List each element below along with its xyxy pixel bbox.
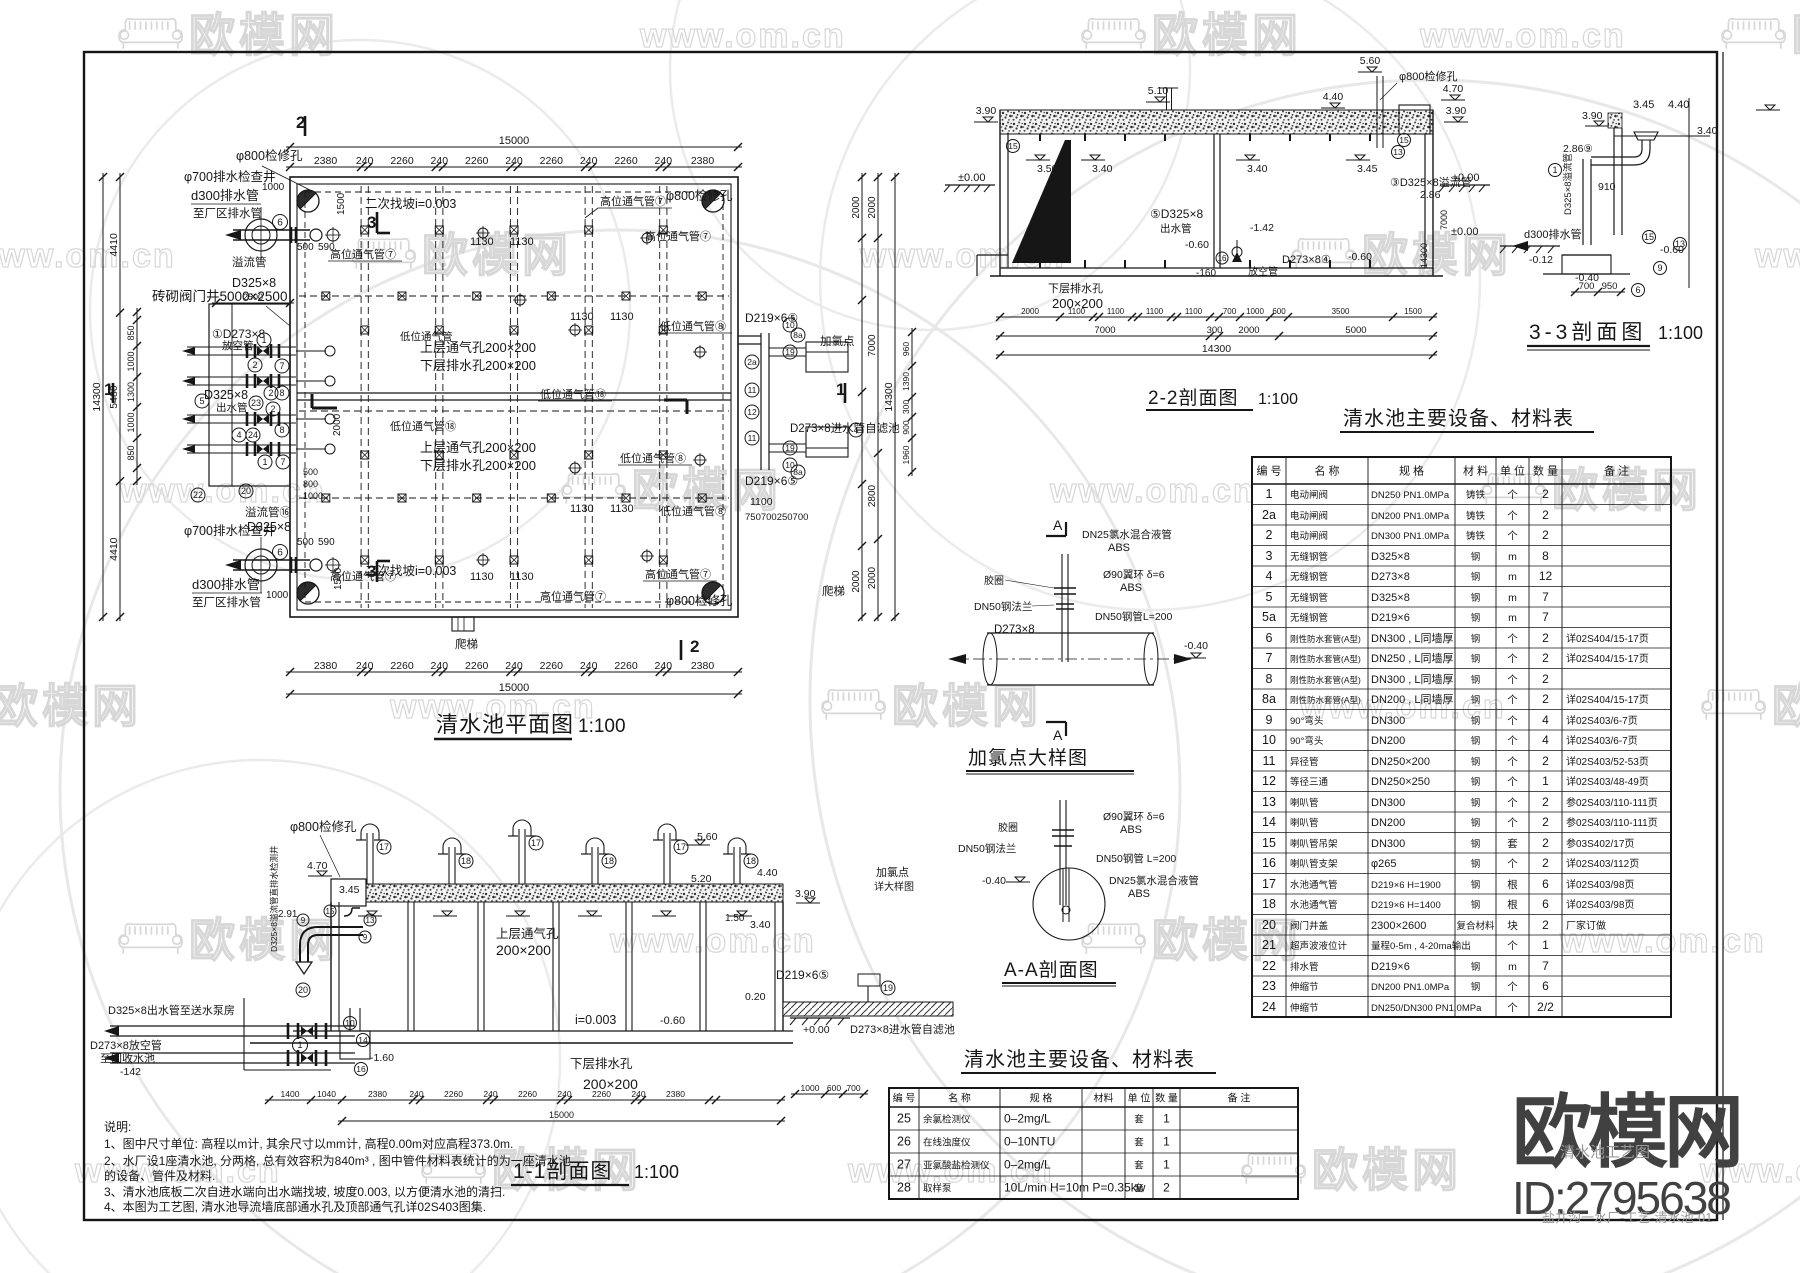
svg-text:2380: 2380: [314, 660, 338, 672]
svg-text:Ø90翼环 δ=6: Ø90翼环 δ=6: [1103, 569, 1165, 581]
svg-text:个: 个: [1507, 633, 1518, 645]
svg-text:750700250700: 750700250700: [745, 512, 808, 523]
svg-text:2: 2: [268, 388, 273, 398]
svg-text:2000: 2000: [867, 566, 878, 589]
svg-text:钢: 钢: [1471, 776, 1481, 788]
svg-text:2000: 2000: [1238, 325, 1259, 336]
svg-text:19: 19: [785, 443, 795, 453]
svg-text:出水管: 出水管: [216, 401, 248, 414]
svg-text:D219×6: D219×6: [1371, 612, 1410, 624]
svg-text:960: 960: [901, 342, 911, 356]
svg-text:胶圈: 胶圈: [984, 574, 1004, 587]
svg-text:14: 14: [358, 1035, 368, 1045]
svg-text:1100: 1100: [1107, 307, 1125, 316]
svg-text:2260: 2260: [614, 155, 638, 167]
svg-text:2260: 2260: [390, 155, 414, 167]
svg-text:水池通气管: 水池通气管: [1290, 899, 1338, 911]
svg-text:22: 22: [193, 490, 203, 500]
svg-text:2: 2: [1542, 836, 1549, 850]
svg-text:下层排水孔200×200: 下层排水孔200×200: [420, 458, 536, 473]
svg-text:铸铁: 铸铁: [1466, 510, 1486, 522]
svg-text:600: 600: [827, 1083, 841, 1093]
svg-text:2000: 2000: [851, 196, 862, 219]
svg-text:2: 2: [1542, 651, 1549, 665]
svg-text:详02S404/15-17页: 详02S404/15-17页: [1566, 632, 1649, 645]
svg-text:6: 6: [1542, 897, 1549, 911]
svg-text:详02S403/112页: 详02S403/112页: [1566, 857, 1639, 870]
svg-text:240: 240: [655, 660, 673, 672]
svg-text:D325×8: D325×8: [204, 388, 248, 402]
svg-text:8: 8: [1542, 549, 1549, 563]
svg-text:欧模网: 欧模网: [422, 229, 572, 281]
svg-text:0–2mg/L: 0–2mg/L: [1004, 1112, 1051, 1126]
svg-text:清水池平面图: 清水池平面图: [436, 712, 574, 737]
svg-text:喇叭管: 喇叭管: [1290, 817, 1319, 829]
svg-text:亚氯酸盐检测仪: 亚氯酸盐检测仪: [923, 1160, 990, 1172]
svg-text:钢: 钢: [1471, 858, 1481, 870]
svg-text:φ265: φ265: [1371, 858, 1397, 870]
svg-text:3: 3: [367, 213, 376, 232]
svg-text:①D273×8: ①D273×8: [212, 327, 265, 341]
svg-text:水池通气管: 水池通气管: [1290, 879, 1338, 891]
svg-text:无缝钢管: 无缝钢管: [1290, 551, 1328, 563]
svg-text:4.70: 4.70: [1443, 83, 1464, 95]
svg-text:4.40: 4.40: [757, 867, 778, 879]
svg-text:7000: 7000: [1439, 210, 1449, 230]
svg-text:2a: 2a: [747, 357, 757, 367]
svg-text:4: 4: [1542, 713, 1549, 727]
svg-text:20: 20: [1262, 918, 1276, 932]
svg-text:240: 240: [580, 155, 598, 167]
svg-text:±0.00: ±0.00: [958, 172, 985, 184]
svg-text:钢: 钢: [1471, 653, 1481, 665]
svg-text:加氯点: 加氯点: [876, 865, 909, 879]
svg-text:详02S404/15-17页: 详02S404/15-17页: [1566, 652, 1649, 665]
svg-text:www.om.cn: www.om.cn: [1049, 472, 1256, 510]
svg-text:16: 16: [1262, 856, 1276, 870]
svg-text:等径三通: 等径三通: [1290, 776, 1329, 788]
svg-text:700: 700: [1223, 307, 1237, 316]
svg-text:5.20: 5.20: [691, 873, 712, 885]
svg-text:7: 7: [280, 457, 285, 467]
svg-text:5000: 5000: [1345, 325, 1366, 336]
svg-text:18: 18: [604, 856, 614, 866]
svg-text:11: 11: [748, 433, 757, 443]
svg-text:DN25氯水混合液管: DN25氯水混合液管: [1082, 528, 1172, 541]
svg-text:套: 套: [1134, 1114, 1144, 1126]
svg-text:个: 个: [1507, 797, 1518, 809]
svg-text:D325×8溢流管直排水检测井: D325×8溢流管直排水检测井: [269, 845, 279, 952]
svg-text:15: 15: [326, 907, 335, 916]
svg-text:-0.60: -0.60: [1040, 251, 1064, 263]
svg-text:DN50钢法兰: DN50钢法兰: [974, 600, 1032, 613]
svg-text:材料: 材料: [1094, 1092, 1114, 1105]
svg-text:240: 240: [409, 1089, 423, 1099]
svg-text:1400: 1400: [281, 1089, 300, 1099]
svg-text:钢: 钢: [1471, 838, 1481, 850]
svg-text:高位通气管⑦: 高位通气管⑦: [645, 229, 711, 243]
svg-text:3.45: 3.45: [1633, 99, 1654, 111]
svg-text:D325×8溢流管: D325×8溢流管: [1562, 153, 1574, 215]
svg-text:16: 16: [1218, 254, 1227, 263]
svg-text:d300排水管: d300排水管: [1524, 227, 1581, 241]
svg-text:D273×8放空管: D273×8放空管: [90, 1038, 162, 1052]
svg-text:17: 17: [531, 838, 541, 848]
svg-text:2: 2: [1542, 487, 1549, 501]
svg-text:D273×8进水管自滤池: D273×8进水管自滤池: [850, 1022, 955, 1036]
svg-text:910: 910: [1598, 181, 1616, 193]
svg-text:2380: 2380: [691, 660, 715, 672]
svg-text:2: 2: [1542, 672, 1549, 686]
svg-text:复合材料: 复合材料: [1456, 920, 1495, 932]
svg-text:14300: 14300: [1419, 243, 1429, 268]
svg-text:1:100: 1:100: [1658, 323, 1703, 343]
svg-text:上层通气孔: 上层通气孔: [496, 926, 559, 941]
svg-text:25: 25: [897, 1112, 911, 1126]
svg-text:D219×6: D219×6: [1371, 961, 1410, 973]
svg-text:超声波液位计: 超声波液位计: [1290, 940, 1348, 952]
svg-text:低位通气管: 低位通气管: [400, 330, 453, 343]
svg-text:电动闸阀: 电动闸阀: [1290, 489, 1328, 501]
svg-text:钢: 钢: [1471, 571, 1481, 583]
svg-text:1: 1: [1552, 165, 1557, 175]
svg-text:1500: 1500: [336, 192, 347, 215]
svg-text:DN300: DN300: [1371, 715, 1405, 727]
svg-text:说明:: 说明:: [104, 1119, 131, 1134]
svg-text:2380: 2380: [691, 155, 715, 167]
svg-text:11: 11: [1263, 754, 1276, 768]
svg-text:2: 2: [1542, 508, 1549, 522]
svg-text:240: 240: [431, 155, 449, 167]
svg-text:22: 22: [1262, 959, 1276, 973]
svg-text:15: 15: [1399, 135, 1409, 145]
svg-text:编 号: 编 号: [1256, 464, 1281, 478]
svg-text:240: 240: [431, 660, 449, 672]
svg-text:20: 20: [241, 486, 251, 496]
svg-text:详02S403/98页: 详02S403/98页: [1566, 878, 1634, 891]
svg-text:2260: 2260: [592, 1089, 611, 1099]
svg-text:高位通气管⑦: 高位通气管⑦: [645, 567, 711, 581]
svg-text:240: 240: [580, 660, 598, 672]
svg-text:2: 2: [690, 637, 699, 656]
svg-text:详02S403/6-7页: 详02S403/6-7页: [1566, 734, 1638, 747]
svg-text:无缝钢管: 无缝钢管: [1290, 592, 1328, 604]
svg-text:2380: 2380: [368, 1089, 387, 1099]
svg-text:2: 2: [1542, 631, 1549, 645]
svg-text:DN300: DN300: [1371, 838, 1405, 850]
svg-text:5a: 5a: [1262, 610, 1276, 624]
svg-text:DN250×250: DN250×250: [1371, 776, 1430, 788]
svg-text:D219×6 H=1400: D219×6 H=1400: [1371, 900, 1441, 911]
svg-text:名 称: 名 称: [948, 1092, 971, 1105]
svg-text:4: 4: [1542, 733, 1549, 747]
svg-text:1130: 1130: [610, 503, 634, 515]
svg-text:盐井沟一水厂-工艺-清水池-01: 盐井沟一水厂-工艺-清水池-01: [1542, 1210, 1712, 1225]
svg-text:3.90: 3.90: [1582, 110, 1603, 122]
svg-text:20: 20: [298, 985, 308, 995]
svg-text:个: 个: [1507, 489, 1518, 501]
svg-text:240: 240: [655, 155, 673, 167]
svg-text:m: m: [1508, 571, 1517, 583]
svg-text:个: 个: [1507, 510, 1518, 522]
svg-text:名 称: 名 称: [1314, 464, 1339, 478]
svg-text:2000: 2000: [851, 570, 862, 593]
svg-text:爬梯: 爬梯: [455, 638, 478, 651]
svg-text:1000: 1000: [1246, 307, 1264, 316]
svg-text:1130: 1130: [510, 571, 534, 583]
svg-text:厂家订做: 厂家订做: [1566, 919, 1606, 932]
svg-text:DN50钢法兰: DN50钢法兰: [958, 842, 1016, 855]
svg-text:3: 3: [367, 562, 376, 581]
svg-text:1: 1: [1163, 1112, 1170, 1126]
svg-text:www.om.cn: www.om.cn: [1754, 237, 1800, 275]
svg-text:φ800检修孔: φ800检修孔: [1399, 69, 1458, 83]
svg-text:至厂区排水管: 至厂区排水管: [193, 206, 262, 220]
svg-text:钢: 钢: [1471, 674, 1481, 686]
svg-text:套: 套: [1507, 837, 1518, 850]
svg-text:9: 9: [1266, 713, 1273, 727]
svg-text:规 格: 规 格: [1030, 1092, 1053, 1105]
svg-text:700: 700: [1579, 281, 1595, 292]
svg-text:1: 1: [262, 457, 267, 467]
svg-text:2: 2: [252, 360, 257, 370]
svg-text:刚性防水套管(A型): 刚性防水套管(A型): [1290, 695, 1361, 705]
svg-text:7: 7: [1266, 651, 1273, 665]
svg-text:⑤D325×8: ⑤D325×8: [1150, 207, 1203, 221]
svg-text:19: 19: [785, 347, 795, 357]
svg-text:φ800检修孔: φ800检修孔: [666, 593, 733, 608]
svg-text:单 位: 单 位: [1128, 1092, 1151, 1105]
svg-text:套: 套: [1134, 1160, 1144, 1172]
svg-text:2380: 2380: [314, 155, 338, 167]
svg-text:16: 16: [356, 1064, 366, 1074]
svg-text:3.45: 3.45: [339, 884, 360, 896]
svg-text:1.50: 1.50: [725, 913, 745, 924]
svg-text:根: 根: [1507, 898, 1518, 911]
svg-text:1: 1: [1266, 487, 1273, 501]
svg-text:3500: 3500: [1332, 307, 1350, 316]
svg-text:DN250 PN1.0MPa: DN250 PN1.0MPa: [1371, 490, 1450, 501]
svg-text:ABS: ABS: [1128, 888, 1150, 900]
svg-text:1300: 1300: [126, 382, 136, 402]
svg-text:个: 个: [1507, 756, 1518, 768]
svg-text:加氯点大样图: 加氯点大样图: [968, 747, 1088, 769]
svg-text:DN250/DN300 PN1.0MPa: DN250/DN300 PN1.0MPa: [1371, 1003, 1482, 1014]
svg-text:DN200 , L同墙厚: DN200 , L同墙厚: [1371, 692, 1454, 706]
svg-text:i=0.003: i=0.003: [575, 1013, 616, 1027]
svg-text:欧模网: 欧模网: [1792, 9, 1800, 61]
svg-text:19: 19: [883, 983, 893, 993]
svg-text:爬梯: 爬梯: [822, 585, 845, 598]
svg-text:3.45: 3.45: [1357, 163, 1378, 175]
svg-text:2380: 2380: [666, 1089, 685, 1099]
svg-text:欧模网: 欧模网: [0, 680, 142, 732]
svg-text:下层排水孔: 下层排水孔: [1048, 281, 1103, 295]
svg-text:14300: 14300: [1202, 343, 1231, 355]
svg-text:2260: 2260: [518, 1089, 537, 1099]
svg-text:13: 13: [1675, 239, 1685, 249]
svg-text:D219×6⑤: D219×6⑤: [745, 311, 798, 325]
svg-text:详02S404/15-17页: 详02S404/15-17页: [1566, 693, 1649, 706]
svg-text:500: 500: [297, 242, 314, 253]
svg-text:钢: 钢: [1471, 899, 1481, 911]
svg-text:2: 2: [1542, 918, 1549, 932]
svg-text:喇叭管: 喇叭管: [1290, 797, 1319, 809]
svg-text:www.om.cn: www.om.cn: [119, 472, 326, 510]
svg-text:2: 2: [1266, 528, 1273, 542]
svg-text:4、本图为工艺图, 清水池导流墙底部通水孔及顶部通气孔详02: 4、本图为工艺图, 清水池导流墙底部通水孔及顶部通气孔详02S403图集.: [104, 1199, 486, 1214]
svg-text:备 注: 备 注: [1604, 464, 1629, 478]
svg-text:Ø90翼环 δ=6: Ø90翼环 δ=6: [1103, 811, 1165, 823]
svg-text:阀门井盖: 阀门井盖: [1290, 920, 1329, 932]
svg-text:7: 7: [1542, 959, 1549, 973]
svg-text:DN300: DN300: [1371, 797, 1405, 809]
svg-text:上层通气孔200×200: 上层通气孔200×200: [420, 440, 536, 455]
svg-text:取样泵: 取样泵: [923, 1183, 952, 1195]
svg-text:1100: 1100: [1185, 307, 1203, 316]
svg-text:90°弯头: 90°弯头: [1290, 735, 1323, 747]
svg-text:28: 28: [897, 1181, 911, 1195]
svg-text:ABS: ABS: [1120, 582, 1142, 594]
svg-text:17: 17: [379, 842, 389, 852]
svg-text:个: 个: [1507, 694, 1518, 706]
svg-text:在线浊度仪: 在线浊度仪: [923, 1137, 971, 1149]
svg-text:240: 240: [557, 1089, 571, 1099]
svg-text:参02S403/110-111页: 参02S403/110-111页: [1566, 816, 1658, 829]
svg-text:17: 17: [1262, 877, 1276, 891]
svg-text:DN250×200: DN250×200: [1371, 756, 1430, 768]
svg-text:11: 11: [748, 385, 757, 395]
svg-text:D273×8: D273×8: [994, 624, 1035, 636]
svg-text:放空管: 放空管: [1248, 265, 1278, 278]
svg-text:低位通气管⑧: 低位通气管⑧: [660, 319, 726, 333]
svg-text:DN250 , L同墙厚: DN250 , L同墙厚: [1371, 651, 1454, 665]
svg-text:500: 500: [303, 467, 318, 477]
svg-text:m: m: [1508, 961, 1517, 973]
svg-text:单 位: 单 位: [1500, 464, 1525, 478]
svg-text:240: 240: [505, 155, 523, 167]
svg-text:590: 590: [318, 537, 335, 548]
svg-text:d300排水管: d300排水管: [192, 577, 260, 592]
svg-text:2.91: 2.91: [278, 909, 298, 920]
svg-text:个: 个: [1507, 735, 1518, 747]
svg-text:欧模网: 欧模网: [1772, 680, 1800, 732]
svg-text:2260: 2260: [465, 660, 489, 672]
svg-text:m: m: [1508, 612, 1517, 624]
svg-text:13: 13: [1262, 795, 1276, 809]
svg-text:刚性防水套管(A型): 刚性防水套管(A型): [1290, 634, 1361, 644]
svg-text:欧模网: 欧模网: [1152, 914, 1302, 966]
svg-text:低位通气管⑱: 低位通气管⑱: [390, 419, 456, 433]
svg-text:高位通气管⑦: 高位通气管⑦: [330, 247, 396, 261]
svg-text:A-A剖面图: A-A剖面图: [1004, 959, 1099, 981]
svg-text:钢: 钢: [1471, 592, 1481, 604]
svg-text:1100: 1100: [1146, 307, 1164, 316]
svg-text:3-3剖面图: 3-3剖面图: [1529, 321, 1646, 344]
svg-text:D325×8: D325×8: [247, 520, 291, 534]
svg-text:5: 5: [1266, 590, 1273, 604]
svg-text:6: 6: [277, 548, 283, 559]
svg-text:-1.42: -1.42: [1250, 222, 1274, 234]
svg-text:清水池主要设备、材料表: 清水池主要设备、材料表: [964, 1048, 1195, 1071]
svg-text:个: 个: [1507, 817, 1518, 829]
svg-text:7000: 7000: [1094, 325, 1115, 336]
svg-text:胶圈: 胶圈: [998, 821, 1018, 834]
svg-text:的设备、管件及材料.: 的设备、管件及材料.: [104, 1168, 215, 1183]
svg-text:余氯检测仪: 余氯检测仪: [923, 1114, 971, 1126]
svg-text:1130: 1130: [570, 503, 594, 515]
svg-text:2: 2: [270, 404, 275, 414]
svg-text:溢流管: 溢流管: [232, 255, 267, 269]
svg-text:-0.12: -0.12: [1529, 254, 1553, 266]
svg-text:1、图中尺寸单位: 高程以m计, 其余尺寸以mm计, 高程0: 1、图中尺寸单位: 高程以m计, 其余尺寸以mm计, 高程0.00m对应高程37…: [104, 1136, 513, 1151]
svg-text:www.om.cn: www.om.cn: [609, 922, 816, 960]
svg-text:个: 个: [1507, 940, 1518, 952]
svg-text:±0.00: ±0.00: [1452, 172, 1479, 184]
svg-text:18: 18: [1262, 897, 1276, 911]
svg-text:14300: 14300: [883, 382, 895, 411]
svg-text:2: 2: [1542, 528, 1549, 542]
svg-text:详02S403/98页: 详02S403/98页: [1566, 898, 1634, 911]
svg-text:900: 900: [901, 420, 911, 434]
svg-text:材 料: 材 料: [1463, 464, 1488, 478]
svg-text:下层排水孔200×200: 下层排水孔200×200: [420, 358, 536, 373]
svg-text:DN300 PN1.0MPa: DN300 PN1.0MPa: [1371, 531, 1450, 542]
svg-text:2: 2: [1542, 815, 1549, 829]
svg-text:240: 240: [505, 660, 523, 672]
svg-text:240: 240: [356, 660, 374, 672]
svg-text:240: 240: [483, 1089, 497, 1099]
svg-text:根: 根: [1507, 878, 1518, 891]
svg-text:www.om.cn: www.om.cn: [1419, 17, 1626, 55]
svg-text:0–10NTU: 0–10NTU: [1004, 1135, 1055, 1149]
svg-text:12: 12: [747, 407, 757, 417]
svg-text:出水管: 出水管: [1160, 222, 1192, 235]
svg-text:电动闸阀: 电动闸阀: [1290, 530, 1328, 542]
svg-text:喇叭管支架: 喇叭管支架: [1290, 858, 1338, 870]
svg-text:个: 个: [1507, 530, 1518, 542]
svg-text:2260: 2260: [465, 155, 489, 167]
svg-text:14: 14: [1262, 815, 1276, 829]
svg-text:至厂区排水管: 至厂区排水管: [192, 595, 261, 609]
svg-text:ABS: ABS: [1120, 824, 1142, 836]
svg-text:砖砌阀门井5000×2500: 砖砌阀门井5000×2500: [152, 289, 287, 304]
svg-text:D273×8④: D273×8④: [1282, 254, 1331, 266]
svg-text:3.50: 3.50: [1037, 163, 1058, 175]
svg-text:m: m: [1508, 592, 1517, 604]
svg-text:24: 24: [248, 430, 258, 440]
svg-text:1000: 1000: [126, 412, 136, 432]
svg-text:1130: 1130: [610, 311, 634, 323]
svg-text:D325×8: D325×8: [232, 276, 276, 290]
svg-text:2000: 2000: [867, 196, 878, 219]
svg-text:6: 6: [1266, 631, 1273, 645]
svg-text:5.10: 5.10: [1148, 85, 1169, 97]
svg-text:14300: 14300: [91, 382, 103, 411]
svg-text:钢: 钢: [1471, 961, 1481, 973]
svg-text:4410: 4410: [108, 537, 120, 561]
svg-text:23: 23: [1262, 979, 1276, 993]
svg-text:至回收水池: 至回收水池: [100, 1051, 155, 1065]
svg-text:欧模网: 欧模网: [1362, 229, 1512, 281]
svg-text:钢: 钢: [1471, 981, 1481, 993]
svg-text:钢: 钢: [1471, 633, 1481, 645]
svg-text:个: 个: [1507, 653, 1518, 665]
svg-text:备 注: 备 注: [1228, 1092, 1251, 1105]
svg-text:24: 24: [1262, 1000, 1276, 1014]
svg-text:6: 6: [277, 218, 283, 229]
svg-text:15000: 15000: [499, 682, 530, 694]
